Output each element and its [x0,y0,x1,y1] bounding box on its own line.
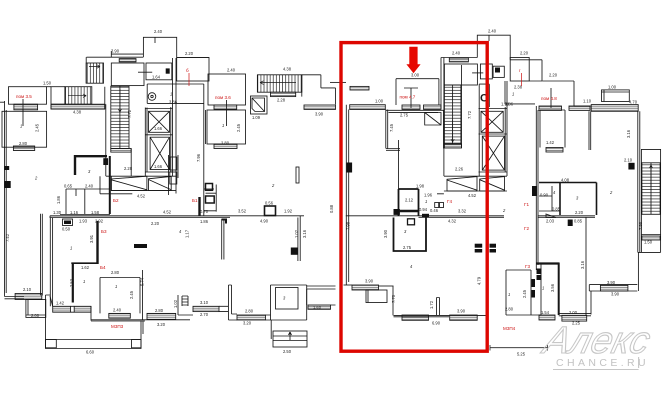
bottom wall lower apartments [91,320,190,321]
room 1 below пом3.6 [207,110,246,144]
black box on wall x536 [532,186,537,196]
terrace right vertical [141,321,143,340]
spine wall left start [49,216,51,218]
black window on corridor wall [103,158,108,165]
stair entry inner lines [273,332,307,341]
svg-text:1.66: 1.66 [154,126,163,131]
middle small room box1 [480,64,492,79]
tower top dim line [111,51,143,57]
wall y286 to pier [379,285,394,287]
svg-text:0.70: 0.70 [200,209,209,214]
svg-text:2.40: 2.40 [154,29,163,34]
svg-text:2.40: 2.40 [488,29,497,34]
svg-text:0.90: 0.90 [540,193,549,198]
middle elevator X2 [482,136,504,170]
svg-text:7.72: 7.72 [127,109,132,118]
svg-text:1.92: 1.92 [284,209,293,214]
bottom window band 2.00 [562,315,587,321]
svg-text:0.50: 0.50 [62,227,71,232]
middle lower left wall vertical [392,286,394,315]
red arrow [406,47,420,73]
wall right of core [175,58,177,194]
svg-text:7.98: 7.98 [638,221,643,230]
black box on right wall [628,163,634,170]
wall x178 lower [178,295,193,315]
svg-text:2.00: 2.00 [569,310,578,315]
svg-text:3.16: 3.16 [580,260,585,269]
wall room3 bottom [66,188,109,190]
svg-text:4.38: 4.38 [283,67,292,72]
wall bottom-left corner [5,297,25,299]
right room block thick [539,183,597,216]
svg-text:7.45: 7.45 [389,123,394,132]
elevator shaft mid wall [145,135,172,172]
svg-text:1.54: 1.54 [541,310,550,315]
svg-text:2.40: 2.40 [113,308,122,313]
svg-text:Алекс: Алекс [538,320,655,362]
right tower top corner [637,110,639,112]
middle landing leader [472,72,483,74]
svg-text:4: 4 [553,190,556,195]
middle bottom wall [394,315,487,316]
middle section left wall [346,105,348,285]
window band 2.80b [237,315,266,320]
svg-text:0.65: 0.65 [64,184,73,189]
window band 3.10 [193,306,219,311]
watermark script word [538,320,655,362]
wall to room3 [266,315,271,320]
shower shape [425,113,441,126]
svg-text:1.50: 1.50 [43,81,52,86]
room3 inner square [276,288,299,310]
svg-text:Г2: Г2 [524,226,529,231]
svg-text:2.80: 2.80 [505,307,514,312]
elevator shaft wall right [171,58,173,176]
svg-text:1.62: 1.62 [81,265,90,270]
svg-text:3.20: 3.20 [157,322,166,327]
door arc small room [75,189,77,196]
svg-text:7.42: 7.42 [5,233,10,242]
svg-text:0.94: 0.94 [419,207,428,212]
wall under band160 [307,289,336,305]
svg-text:1: 1 [508,292,510,297]
window black box on left wall [4,181,11,188]
living room window black box [291,248,298,255]
middle room outline [386,110,444,151]
svg-text:1.58: 1.58 [91,210,100,215]
svg-text:1.50: 1.50 [644,240,653,245]
wall fixture black lower-left [134,244,147,248]
svg-text:1: 1 [115,284,117,289]
svg-text:6.60: 6.60 [86,350,95,355]
svg-text:4.90: 4.90 [260,219,269,224]
svg-text:1.42: 1.42 [56,301,65,306]
window black boxes x531 [532,279,536,287]
terrace corner box right [132,340,142,348]
pier vertical mid [229,285,232,314]
svg-text:1.64: 1.64 [152,75,161,80]
svg-text:3.00: 3.00 [411,73,420,78]
balcony bottom-left [26,300,46,318]
svg-text:1.98: 1.98 [416,184,425,189]
svg-text:2.80: 2.80 [155,308,164,313]
balcony inner line [26,300,46,316]
svg-text:2.20: 2.20 [520,51,529,56]
svg-text:3.90: 3.90 [365,279,374,284]
window band room1 lower [109,313,131,318]
right stair lower band [642,236,660,240]
right wing wall x536 [536,106,538,270]
пом4.7 side walls [396,79,439,105]
stair2b landing band [271,92,296,96]
svg-text:4: 4 [410,264,413,269]
middle lower outer: window 3.90 [344,284,353,286]
svg-text:6.90: 6.90 [432,321,441,326]
svg-text:2.53: 2.53 [69,278,74,287]
svg-text:3: 3 [88,169,91,174]
svg-text:3.90: 3.90 [607,280,616,285]
watermark underline [553,357,639,370]
svg-text:Г3: Г3 [525,264,530,269]
black box on wall y214 [422,214,429,217]
svg-text:2.80: 2.80 [19,141,28,146]
wall y189 segment [204,188,214,190]
window band tower [119,59,136,62]
lower-left outer wall segment [46,295,53,341]
б tick left [0,101,5,103]
step lines left-mid [182,296,188,306]
svg-text:4.52: 4.52 [137,194,146,199]
svg-text:1.60: 1.60 [313,305,322,310]
wall 5.74 vertical [142,270,144,320]
tower top wall left [87,56,144,58]
window bands lower-left y306 [53,306,71,312]
svg-text:7.98: 7.98 [346,221,351,230]
window black box on left wall 2 [4,166,9,170]
svg-text:CHANCE.RU: CHANCE.RU [556,357,649,369]
пом3.6 leader [226,100,228,126]
landing box tower [111,63,144,86]
wall inner vertical left apt [41,214,43,296]
landing band border2 [51,87,105,109]
wall y285/291 right [589,285,637,291]
svg-text:1.16: 1.16 [70,210,79,215]
room 1 kitchen left-mid [147,84,204,103]
svg-text:3.90: 3.90 [383,229,388,238]
svg-text:пом 4.7: пом 4.7 [400,95,416,100]
right tower wall main [638,111,640,252]
window band 2.80/3.20 [147,313,176,319]
dim tick middle bracket [488,35,490,41]
svg-text:1: 1 [542,286,544,291]
middle elevator shaft walls [479,81,508,176]
wall rooms4 dividers [66,156,110,214]
red labels [16,68,557,331]
stair2b arrow [260,81,296,85]
stair2b right wall [257,75,301,97]
svg-text:1.09: 1.09 [252,115,261,120]
svg-text:1.02: 1.02 [173,299,178,308]
wall thick Б4 [72,263,74,302]
svg-text:1.72: 1.72 [429,300,434,309]
bathroom Б1 walls [204,185,216,212]
svg-text:3.32: 3.32 [458,209,467,214]
spine wall right [538,216,595,218]
right lower room1 [541,263,559,316]
пом4.8 leader [550,88,552,108]
stair tall center line [119,86,121,148]
svg-text:2.80: 2.80 [111,270,120,275]
svg-text:3.10: 3.10 [200,300,209,305]
wall y82 left stub [330,81,346,83]
svg-text:3.90: 3.90 [111,49,120,54]
svg-text:2.45: 2.45 [236,123,241,132]
wall left outer [4,101,6,297]
svg-text:4.52: 4.52 [163,210,172,215]
svg-text:Б4: Б4 [100,265,106,270]
svg-text:1.10: 1.10 [583,99,592,104]
б-room top line [177,57,209,59]
svg-text:5.74: 5.74 [140,277,145,286]
window band 1.60 [308,305,331,309]
middle room big top [386,110,444,112]
svg-text:2.70: 2.70 [200,312,209,317]
room 1 upper-left [2,111,47,147]
bottom wall y314.5 right section [559,314,591,316]
svg-text:7.72: 7.72 [467,110,472,119]
svg-text:5.25: 5.25 [517,352,526,357]
bottom window band 1.54 [539,315,555,320]
stair2 arrow [68,94,86,97]
balcony middle lower [366,290,387,303]
svg-text:1.96: 1.96 [424,193,433,198]
svg-text:пом 4.8: пом 4.8 [541,96,557,101]
bay window sill line [111,176,176,190]
middle elevator X1 [481,111,503,132]
wall left outer inner line [5,110,7,293]
right stair treads [642,163,660,215]
right lower thick wall [558,263,560,316]
window band bottom of room1 [13,146,34,151]
right tower bottom [638,235,661,253]
window box 0.56 on spine [265,206,276,216]
svg-text:2.45: 2.45 [129,290,134,299]
svg-text:3.56: 3.56 [550,283,555,292]
right room block inner [539,186,560,211]
wall corner thick [222,220,228,224]
middle stair arrow [451,120,454,142]
wall between window bands [71,306,75,312]
stair entry below vertical [270,320,272,339]
svg-text:3.91: 3.91 [89,234,94,243]
svg-text:Б2: Б2 [113,198,119,203]
terrace corner box left [46,340,57,348]
elevator X2 [150,137,169,169]
svg-text:0.46: 0.46 [430,208,439,213]
window band below пом3.6 [214,105,237,109]
svg-text:0.88: 0.88 [329,204,334,213]
пом4.8 box top [543,81,574,106]
svg-text:2.20: 2.20 [575,210,584,215]
svg-text:1: 1 [512,92,514,97]
corridor wall left of stair [105,104,107,176]
red highlight rectangle [341,43,487,352]
middle stair shaft walls [441,58,462,177]
window box 0.50 right [568,220,573,227]
svg-text:1.93: 1.93 [79,219,88,224]
circle kitchen symbol [148,93,156,101]
thick wall Б1 room [198,197,200,216]
svg-text:1: 1 [20,124,22,129]
svg-text:2: 2 [34,176,38,181]
upper stair arrow [89,65,100,68]
bay window left 1 [111,176,147,190]
svg-text:2.26: 2.26 [455,167,464,172]
svg-text:3.90: 3.90 [611,292,620,297]
room 3 thick box middle [394,218,427,252]
svg-text:0.85: 0.85 [552,207,561,212]
пом3.6 box [208,74,246,105]
right wedge [546,214,556,218]
middle bay window 2 [480,177,505,191]
window bands right wing y106 [539,106,562,110]
svg-text:2: 2 [271,183,275,188]
leader пом3.5 [22,99,24,126]
middle core: tower top [441,57,477,59]
svg-text:4.52: 4.52 [468,193,477,198]
svg-text:2.10: 2.10 [624,158,633,163]
svg-text:1: 1 [425,199,427,204]
stair tall left shaft [111,86,129,148]
elevator shaft wall left [145,108,147,177]
wall thick Б3 [96,221,98,264]
svg-text:2.00: 2.00 [31,313,40,318]
middle pier bottom [437,298,440,316]
window band below пом3.5 [14,104,38,110]
core bottom wall to spine [100,176,176,194]
svg-text:2.50: 2.50 [283,349,292,354]
window band mid-left1 [350,86,369,90]
svg-text:2.40: 2.40 [227,68,236,73]
window band bottom-left [15,294,42,300]
roof bracket 2.40 middle [477,35,510,60]
right lower left room [506,270,541,315]
leader to room [138,71,152,73]
пом4.8 top wall [510,60,543,81]
room3 box fixture [408,219,415,225]
corridor top wall mid [302,75,336,105]
svg-text:1: 1 [83,279,85,284]
wall horiz under B4 [71,262,97,264]
window box 0.50 on spine [63,219,73,226]
г-room [510,58,529,82]
window band below right room1 [546,148,563,153]
red leader lines [189,73,522,86]
spine wall middle [346,216,504,218]
room3 lower-mid outer [271,285,307,320]
svg-text:4.38: 4.38 [73,110,82,115]
upper stair flight left [86,63,103,83]
svg-text:1.02: 1.02 [294,229,299,238]
lower-left rooms inner wall pair [50,218,52,306]
bathroom block walls [169,155,179,195]
wall thick room3 left wing [75,155,107,175]
elevator shaft top [145,108,172,110]
right room2 bottom window [600,285,628,291]
dim tick 2.40 left [154,37,156,43]
svg-text:2.40: 2.40 [452,51,461,56]
middle stair top landing [444,64,477,85]
svg-text:3: 3 [576,196,579,201]
landing under stair band [111,149,131,153]
wall vertical x203 [204,110,206,216]
svg-text:1.86: 1.86 [56,195,61,204]
window black box on left wall mid [347,163,353,173]
tower left wall [85,57,87,83]
black boxes near red edge [475,244,483,248]
svg-text:1: 1 [70,246,72,251]
elevator small inner [252,98,265,112]
terrace М3П3 [46,340,142,349]
living room big left: right wall [298,216,300,261]
wall y286-289 right of room3 [307,286,336,289]
balcony 1.00 top right [602,90,630,102]
б-room window black box [166,68,170,73]
svg-text:2.80: 2.80 [221,141,230,146]
svg-text:4.32: 4.32 [448,219,457,224]
svg-text:2.10: 2.10 [23,287,32,292]
svg-text:1.42: 1.42 [546,140,555,145]
window bands y105 row [350,105,386,110]
corridor wall right of stair [130,149,132,177]
svg-text:Б3: Б3 [101,229,107,234]
middle shaft mid walls [479,134,508,172]
middle bay sill [437,176,507,194]
room 1 lower with window [91,278,140,321]
thick bottom wall small room [399,210,419,212]
stair2 landing left [51,87,65,105]
svg-text:0.85: 0.85 [574,219,583,224]
svg-text:4.08: 4.08 [561,178,570,183]
svg-text:3.52: 3.52 [238,209,247,214]
svg-text:Г4: Г4 [447,199,452,204]
middle room1 right of core [505,81,535,104]
stair tall arrow [118,89,121,112]
wall y106 right wing [574,105,591,107]
svg-text:3.90: 3.90 [315,112,324,117]
small box 0.50 on wall [206,184,213,191]
middle stair center line [452,85,454,144]
svg-text:б: б [186,68,189,73]
stair2 run treads [65,87,92,105]
svg-text:3: 3 [283,296,286,301]
elevator small box [251,96,268,114]
svg-text:1: 1 [170,92,172,97]
svg-text:1.98: 1.98 [501,102,510,107]
black boxes right of red line [490,244,497,248]
spine wall left part [50,216,304,218]
svg-text:2.20: 2.20 [151,221,160,226]
small box 2 on wall [206,196,215,203]
elevator X1 [149,111,170,132]
window band right of core [304,105,336,109]
svg-text:2.40: 2.40 [85,184,94,189]
wall y314 mid [229,314,238,320]
svg-text:М3П4: М3П4 [503,326,516,331]
svg-text:7.70: 7.70 [391,294,396,303]
svg-text:1.00: 1.00 [608,85,617,90]
svg-text:2.20: 2.20 [185,51,194,56]
